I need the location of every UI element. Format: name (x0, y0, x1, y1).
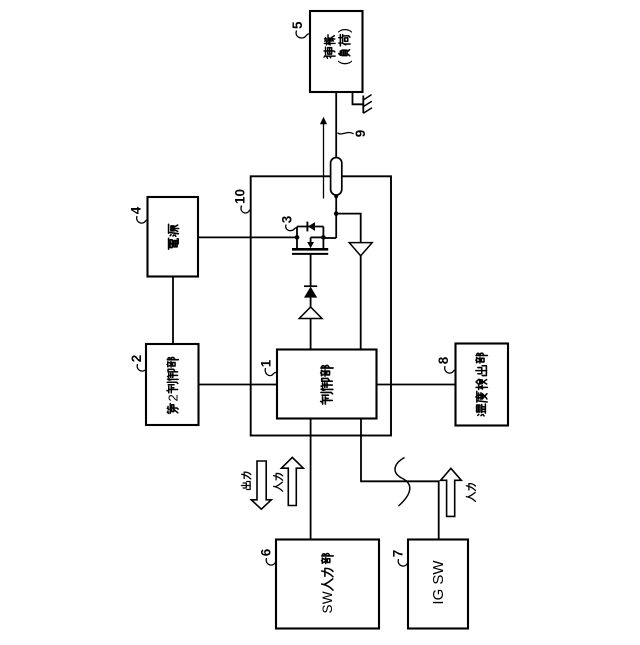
svg-text:1: 1 (259, 359, 274, 367)
svg-text:3: 3 (280, 215, 295, 223)
reference numeral 3 (280, 215, 295, 223)
leader squiggle for 6 (266, 558, 276, 565)
node: drain junction (334, 211, 339, 216)
junction dot below fuse (334, 194, 338, 198)
block: IG SW box 7 (408, 540, 468, 629)
svg-text:4: 4 (129, 206, 144, 214)
leader squiggle for 3 (286, 225, 297, 231)
block: control unit box 1 (277, 350, 377, 419)
break squiggle on IG SW wire (395, 458, 410, 507)
leader squiggle for 9 (338, 132, 354, 134)
svg-text:IG SW: IG SW (430, 560, 447, 605)
svg-text:(: ( (336, 60, 353, 65)
leader squiggle for 10 (241, 206, 251, 213)
diode D (gate) (304, 285, 317, 287)
label 出力 (241, 472, 250, 489)
label 温度検出部 in box 8 (476, 353, 488, 416)
label SW入力部 in box 6 (320, 554, 335, 614)
svg-text:2: 2 (165, 394, 180, 401)
direction arrow (up) at output 9 (323, 122, 325, 199)
fuse 9 (capsule) (331, 158, 342, 196)
leader squiggle for 1 (265, 368, 277, 376)
label 補機(負荷) in box 5 (324, 28, 353, 65)
block arrow 入力 (up) (281, 457, 303, 505)
reference numeral 4 (129, 206, 144, 214)
reference numeral 9 (353, 130, 368, 138)
block: SW input box 6 (276, 540, 379, 629)
svg-text:10: 10 (233, 189, 248, 204)
wire: diode to arrowhead (310, 298, 312, 308)
block: temperature detection box 8 (456, 344, 509, 426)
reference numeral 6 (259, 548, 274, 556)
wire: control unit to IG SW (361, 419, 439, 540)
svg-text:W: W (320, 591, 335, 604)
reference numeral 8 (436, 356, 451, 364)
wire: sense arrow to control unit box 1 (360, 255, 362, 350)
leader squiggle for 4 (137, 216, 148, 223)
svg-text:): ) (336, 28, 353, 33)
leader squiggle for 5 (296, 31, 310, 38)
controller unit box 10 (outline) (251, 176, 391, 435)
wire: control unit to SW input (310, 419, 312, 540)
label IG SW in box 7 (430, 560, 447, 605)
label 第2制御部 in box 2 (165, 357, 180, 413)
svg-text:8: 8 (436, 356, 451, 364)
wire: 2nd control unit to control unit (199, 384, 278, 386)
block arrow 出力 (down) (251, 461, 271, 509)
block arrow 入力 (up, IG SW) (441, 468, 462, 516)
svg-text:9: 9 (353, 130, 368, 138)
svg-text:6: 6 (259, 548, 274, 556)
reference numeral 10 (233, 189, 248, 204)
block: power supply box 4 (148, 197, 199, 277)
wire: junction to sense arrow (336, 214, 361, 243)
block: 2nd control unit box 2 (146, 344, 199, 425)
ground symbol (353, 91, 363, 104)
label 入力 (IG SW) (466, 484, 475, 502)
hollow arrowhead (up) gate drive (299, 307, 322, 319)
svg-text:5: 5 (290, 21, 305, 29)
wire: power supply to MOSFET source (198, 236, 297, 238)
reference numeral 5 (290, 21, 305, 29)
wire: gate to diode (310, 254, 312, 287)
reference numeral 1 (259, 359, 274, 367)
label 入力 (274, 473, 283, 491)
wire: box5 to fuse 9 (335, 92, 337, 159)
svg-text:S: S (320, 604, 335, 613)
wire: control unit to temperature detector (377, 384, 456, 386)
wire: power supply to 2nd control unit (172, 277, 174, 345)
transistor Q 3 (MOSFET, rotated) (323, 237, 336, 239)
label 制御部 in box 1 (321, 365, 333, 404)
leader squiggle for 2 (137, 364, 146, 371)
reference numeral 2 (129, 355, 144, 363)
hollow arrowhead (down) into controller (349, 243, 372, 256)
wire: fuse to drain junction (335, 193, 337, 238)
wire: arrowhead to control unit (310, 319, 312, 350)
svg-text:7: 7 (391, 550, 406, 558)
svg-text:2: 2 (129, 355, 144, 363)
leader squiggle for 7 (398, 559, 408, 566)
reference numeral 7 (391, 550, 406, 558)
block: auxiliary machine (load) box 5 (310, 11, 363, 92)
label 電源 in box 4 (169, 224, 179, 249)
leader squiggle for 8 (445, 366, 456, 373)
